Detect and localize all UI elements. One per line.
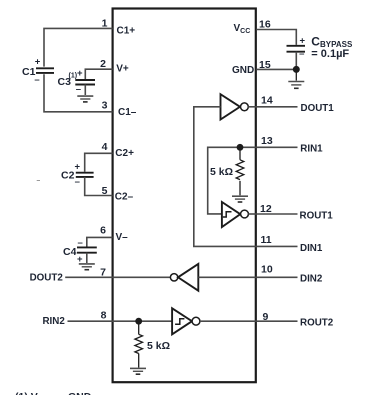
wire dot to resistor R1 bbox=[239, 147, 241, 160]
U2B hysteresis symbol bbox=[223, 212, 232, 217]
ground under C3 bbox=[77, 96, 93, 102]
svg-text:+: + bbox=[35, 57, 41, 68]
svg-text:C1+: C1+ bbox=[117, 26, 136, 37]
U2A bubble bbox=[241, 103, 249, 111]
svg-text:12: 12 bbox=[260, 203, 272, 215]
svg-text:DIN2: DIN2 bbox=[300, 274, 323, 285]
svg-text:ROUT2: ROUT2 bbox=[300, 318, 334, 329]
junction dot RIN1 bbox=[237, 144, 244, 151]
svg-text:CBYPASS: CBYPASS bbox=[311, 34, 353, 49]
resistor R2 5k zigzag bbox=[135, 334, 143, 353]
svg-text:GND: GND bbox=[68, 391, 92, 395]
junction dot RIN2 bbox=[135, 318, 142, 325]
svg-text:13: 13 bbox=[261, 135, 273, 147]
pin 12 stub bbox=[256, 213, 297, 215]
svg-text:2: 2 bbox=[100, 58, 106, 70]
wire dot to resistor bbox=[138, 321, 140, 334]
inverter U3 bubble (DIN2 to DOUT2) bbox=[170, 274, 177, 281]
wire DOUT2 to DIN2 inverter bubble bbox=[65, 276, 170, 278]
schmitt inverter U4 triangle (RIN2 to ROUT2) bbox=[172, 308, 192, 334]
svg-text:–: – bbox=[299, 48, 304, 59]
pin 11 stub bbox=[256, 245, 297, 247]
wire pin6 to C4 bbox=[87, 237, 113, 246]
svg-text:–: – bbox=[76, 84, 81, 95]
svg-text:+: + bbox=[77, 68, 83, 79]
wire C4 to ground bbox=[86, 253, 88, 263]
svg-text:+: + bbox=[75, 161, 81, 172]
stray dash mark bbox=[37, 180, 40, 182]
ground under R2 bbox=[130, 368, 146, 374]
pin 13 wire with junction bbox=[208, 147, 257, 214]
svg-text:DOUT1: DOUT1 bbox=[301, 103, 335, 114]
svg-text:–: – bbox=[34, 75, 39, 86]
svg-text:16: 16 bbox=[259, 18, 271, 30]
wire pin2 to C3 bbox=[85, 69, 112, 79]
capacitor C2 plates bbox=[76, 173, 94, 177]
svg-text:3: 3 bbox=[102, 100, 108, 112]
U4 bubble bbox=[192, 317, 200, 325]
wire DIN2 inverter to pin 10 bbox=[198, 276, 256, 278]
svg-text:5 kΩ: 5 kΩ bbox=[210, 166, 233, 178]
svg-text:14: 14 bbox=[261, 94, 273, 106]
svg-text:C2: C2 bbox=[61, 170, 75, 182]
inverter U3 triangle bbox=[178, 264, 198, 291]
wire R1 to ground bbox=[239, 181, 241, 195]
svg-text:(1) V: (1) V bbox=[15, 391, 38, 395]
svg-text:V+: V+ bbox=[116, 63, 129, 74]
wire pin4 to C2 top bbox=[85, 153, 113, 171]
wire resistor to ground bbox=[138, 354, 140, 368]
ground under CBYPASS bbox=[288, 82, 304, 89]
svg-text:C2–: C2– bbox=[115, 192, 134, 203]
svg-text:RIN1: RIN1 bbox=[300, 144, 323, 155]
svg-text:–: – bbox=[75, 177, 80, 188]
capacitor CBYPASS plates bbox=[287, 46, 306, 52]
resistor R1 5k zigzag bbox=[236, 160, 244, 180]
pin 13 stub bbox=[256, 146, 297, 148]
wire U2B bubble to pin 12 bbox=[248, 213, 256, 215]
svg-text:9: 9 bbox=[263, 311, 269, 323]
svg-text:C3: C3 bbox=[58, 76, 72, 88]
schmitt inverter U2B triangle (RIN1 to ROUT1) bbox=[222, 202, 240, 227]
svg-text:1: 1 bbox=[102, 17, 108, 29]
svg-text:ROUT1: ROUT1 bbox=[300, 210, 334, 221]
wire pin1 to C1 top bbox=[44, 28, 113, 66]
wire U2A bubble to box edge bbox=[248, 106, 256, 108]
capacitor C1 plates bbox=[36, 68, 54, 73]
svg-text:V–: V– bbox=[116, 232, 129, 243]
svg-text:RIN2: RIN2 bbox=[42, 316, 65, 327]
svg-text:11: 11 bbox=[261, 234, 272, 246]
wire C3 to ground bbox=[84, 85, 86, 96]
ground under C4 bbox=[79, 264, 95, 270]
pin 14 stub bbox=[256, 106, 297, 108]
IC box U1 bbox=[113, 9, 256, 383]
wire C1 bottom to pin 3 bbox=[44, 74, 113, 112]
svg-text:6: 6 bbox=[100, 225, 106, 237]
capacitor C4 plates bbox=[77, 247, 97, 252]
svg-text:DOUT2: DOUT2 bbox=[30, 272, 64, 283]
pin 15 wire bbox=[256, 68, 296, 70]
inverter U2A triangle (DIN1 to DOUT1) bbox=[221, 94, 241, 119]
ground under R1 bbox=[232, 196, 248, 202]
svg-text:= 0.1µF: = 0.1µF bbox=[311, 48, 349, 60]
capacitor C3 plates bbox=[75, 80, 95, 85]
U4 hysteresis symbol bbox=[175, 319, 184, 325]
junction dot pin15 bbox=[293, 66, 300, 73]
svg-text:5 kΩ: 5 kΩ bbox=[147, 340, 170, 352]
svg-text:DIN1: DIN1 bbox=[300, 243, 323, 254]
svg-text:C1–: C1– bbox=[118, 107, 137, 118]
wire U4 bubble to pin 9 bbox=[200, 320, 256, 322]
wire RIN2 to schmitt input bbox=[68, 320, 173, 322]
wire CBYPASS to junction bbox=[295, 52, 297, 70]
wire pin16 to CBYPASS bbox=[256, 30, 296, 45]
pin 10 stub bbox=[256, 276, 297, 278]
U2B bubble bbox=[241, 210, 249, 218]
svg-text:C4: C4 bbox=[63, 246, 77, 258]
svg-text:5: 5 bbox=[102, 185, 108, 197]
svg-text:GND: GND bbox=[232, 65, 254, 76]
svg-text:C2+: C2+ bbox=[115, 148, 134, 159]
wire junction to ground bbox=[295, 69, 297, 80]
svg-text:VCC: VCC bbox=[234, 23, 251, 35]
svg-text:10: 10 bbox=[261, 264, 273, 276]
pin 9 stub bbox=[256, 320, 297, 322]
svg-text:4: 4 bbox=[102, 141, 108, 153]
svg-text:8: 8 bbox=[101, 310, 107, 322]
wire DIN1 feedback to U2A input bbox=[194, 107, 256, 247]
wire C2 bottom to pin 5 bbox=[85, 177, 113, 196]
